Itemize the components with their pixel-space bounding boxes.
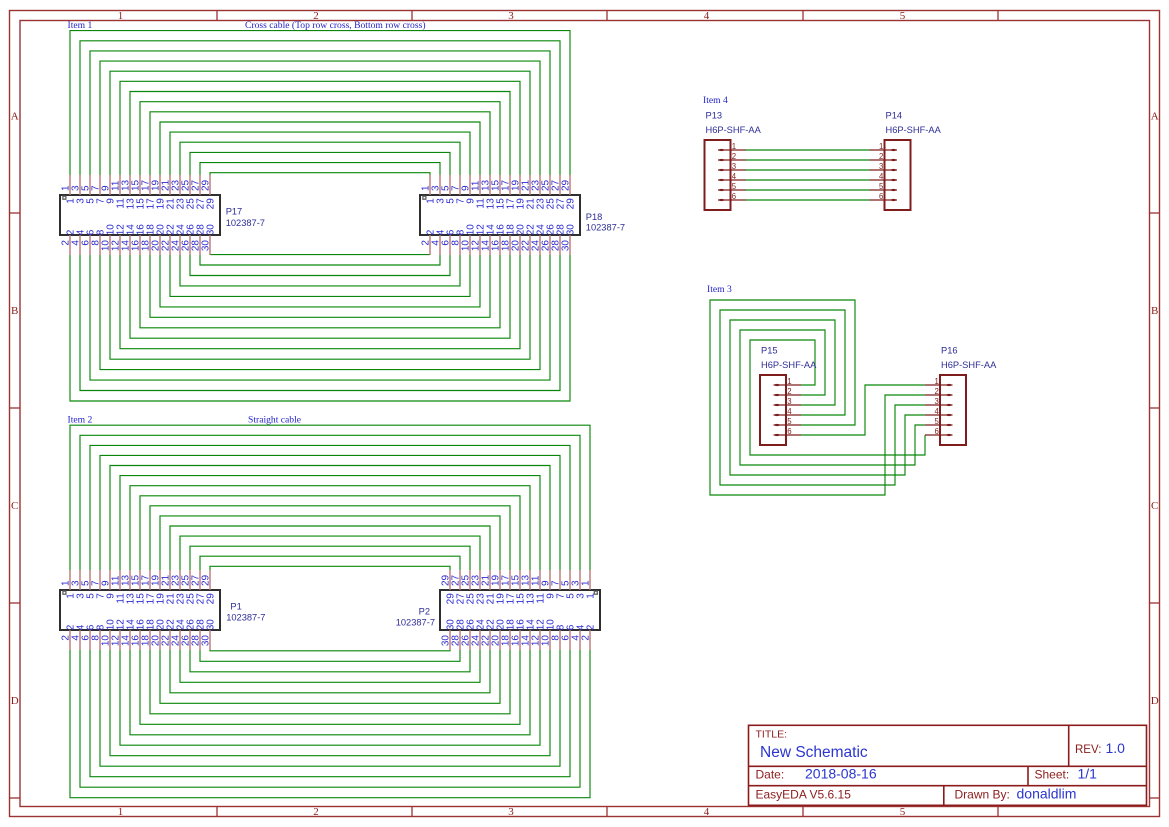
svg-text:Date:: Date: [756, 768, 785, 782]
wire P15.4 to P16.3 [720, 310, 925, 485]
connector P17 pin stubs [70, 175, 210, 255]
connector P1 pin numbers inside bottom [66, 619, 217, 631]
svg-text:5: 5 [732, 182, 737, 191]
wire P17.18 to P18.14 [150, 255, 490, 317]
wire P17.26 to P18.6 [190, 255, 450, 276]
svg-text:Item 2: Item 2 [68, 415, 93, 426]
svg-text:30: 30 [206, 224, 217, 236]
wire P17.5 to P18.25 [90, 51, 550, 175]
svg-text:REV:: REV: [1075, 744, 1101, 756]
connector P2 pin numbers inside top [446, 593, 597, 605]
svg-text:2: 2 [581, 635, 592, 641]
svg-text:3: 3 [934, 397, 938, 406]
connector P17 pin numbers outside bottom [61, 240, 212, 252]
svg-text:30: 30 [201, 240, 212, 252]
wire P17.22 to P18.10 [170, 255, 470, 296]
frame column labels bottom [118, 806, 906, 818]
wire P17.6 to P18.26 [90, 255, 550, 380]
svg-text:29: 29 [201, 574, 212, 586]
wire P1.27 to P2.27 [200, 556, 460, 570]
wire P1.20 to P2.20 [160, 650, 500, 703]
svg-text:6: 6 [732, 192, 736, 201]
svg-text:TITLE:: TITLE: [756, 729, 788, 741]
svg-text:EasyEDA V5.6.15: EasyEDA V5.6.15 [756, 788, 852, 802]
connector P16 pins [925, 384, 953, 436]
connector P1 pin stubs [70, 570, 210, 650]
connector P16 body [940, 375, 966, 445]
wire P1.2 to P2.2 [70, 650, 590, 798]
svg-text:4: 4 [787, 407, 792, 416]
title block row dividers [749, 725, 1147, 805]
svg-text:C: C [11, 500, 18, 512]
svg-text:Straight cable: Straight cable [248, 415, 301, 426]
connector P17 pin numbers inside bottom [66, 224, 217, 236]
svg-text:5: 5 [787, 417, 792, 426]
connector P17 body [60, 195, 220, 235]
connector P2 pin numbers inside bottom [446, 619, 597, 631]
frame row labels left [11, 111, 19, 708]
svg-text:29: 29 [566, 198, 577, 210]
svg-text:3: 3 [732, 162, 736, 171]
svg-text:H6P-SHF-AA: H6P-SHF-AA [761, 360, 817, 370]
connector P18 pin-1 notch [423, 196, 426, 199]
wire P17.25 to P18.5 [190, 152, 450, 175]
connector P13 pin numbers [732, 142, 737, 201]
svg-text:5: 5 [934, 417, 939, 426]
wire P17.28 to P18.4 [200, 255, 440, 265]
wire P17.12 to P18.20 [120, 255, 520, 349]
connector P15 pins [774, 384, 802, 436]
wire P17.2 to P18.30 [70, 255, 570, 401]
svg-text:2: 2 [313, 806, 319, 818]
wire P13.4 to P14.4 [745, 179, 870, 181]
svg-text:P18: P18 [586, 212, 603, 222]
svg-text:donaldlim: donaldlim [1017, 786, 1077, 802]
svg-text:3: 3 [508, 806, 514, 818]
connector P14 pin numbers [879, 142, 884, 201]
wire P1.4 to P2.4 [80, 650, 580, 787]
svg-text:1: 1 [787, 377, 791, 386]
wire P1.7 to P2.7 [100, 455, 560, 570]
wire P17.24 to P18.8 [180, 255, 460, 286]
svg-text:New Schematic: New Schematic [760, 744, 868, 761]
wire P1.28 to P2.28 [200, 650, 460, 661]
wire P1.29 to P2.29 [210, 566, 450, 570]
connector P14 pins [870, 149, 898, 201]
svg-text:Cross cable (Top row cross, Bo: Cross cable (Top row cross, Bottom row c… [245, 20, 426, 31]
svg-text:H6P-SHF-AA: H6P-SHF-AA [941, 360, 997, 370]
wire P1.16 to P2.16 [140, 650, 520, 724]
svg-text:4: 4 [704, 10, 710, 22]
svg-text:102387-7: 102387-7 [226, 218, 265, 228]
svg-text:4: 4 [732, 172, 737, 181]
connector P14 body [885, 140, 911, 210]
wire P13.2 to P14.2 [745, 159, 870, 161]
connector P13 body [705, 140, 731, 210]
wire P13.3 to P14.3 [745, 169, 870, 171]
wire P17.1 to P18.29 [70, 31, 570, 175]
wire P1.3 to P2.3 [80, 435, 580, 570]
frame row labels right [1151, 111, 1159, 708]
svg-text:D: D [11, 695, 19, 707]
wire P17.14 to P18.18 [130, 255, 510, 338]
wire P1.15 to P2.15 [140, 496, 520, 570]
wire P1.19 to P2.19 [160, 516, 500, 570]
wire P1.9 to P2.9 [110, 466, 550, 571]
wire P1.14 to P2.14 [130, 650, 530, 735]
svg-text:5: 5 [879, 182, 884, 191]
wire P17.9 to P18.21 [110, 71, 530, 175]
wire P1.22 to P2.22 [170, 650, 490, 693]
wire P17.3 to P18.27 [80, 41, 560, 175]
wire P17.10 to P18.22 [110, 255, 530, 359]
connector P16 pin numbers [934, 377, 939, 436]
svg-text:Item 3: Item 3 [707, 284, 732, 295]
svg-text:2: 2 [586, 624, 597, 630]
wire P1.26 to P2.26 [190, 650, 470, 672]
svg-text:2: 2 [787, 387, 791, 396]
svg-text:B: B [11, 305, 18, 317]
svg-text:1: 1 [586, 593, 597, 599]
connector P2 pin stubs [450, 570, 590, 650]
wire P1.18 to P2.18 [150, 650, 510, 714]
wire P17.30 to P18.2 [210, 254, 430, 256]
svg-text:P13: P13 [706, 111, 723, 121]
connector P1 body [60, 590, 220, 630]
connector P18 pin numbers outside bottom [421, 240, 572, 252]
wire P1.17 to P2.17 [150, 506, 510, 570]
svg-text:Item 4: Item 4 [703, 95, 728, 106]
svg-text:1: 1 [581, 580, 592, 586]
svg-text:102387-7: 102387-7 [226, 613, 265, 623]
connector P2 pin numbers outside bottom [441, 635, 592, 647]
svg-text:2: 2 [934, 387, 938, 396]
svg-text:30: 30 [201, 635, 212, 647]
wire P17.19 to P18.11 [160, 122, 480, 175]
wire P17.13 to P18.17 [130, 92, 510, 176]
svg-text:102387-7: 102387-7 [586, 223, 625, 233]
connector P1 pin numbers inside top [66, 593, 217, 605]
svg-text:29: 29 [561, 179, 572, 191]
connector P18 pin numbers outside top [421, 179, 572, 191]
connector P13 pins [718, 149, 746, 201]
svg-text:1: 1 [118, 806, 124, 818]
svg-text:3: 3 [787, 397, 791, 406]
wire P15.2 to P16.5 [740, 330, 925, 465]
svg-text:6: 6 [787, 427, 791, 436]
wire P17.8 to P18.24 [100, 255, 540, 370]
svg-text:A: A [1151, 111, 1159, 123]
wire P17.11 to P18.19 [120, 81, 520, 175]
wire P15.6 to P16.1 [801, 385, 925, 435]
wire P17.17 to P18.13 [150, 112, 490, 175]
wire P15.5 to P16.2 [710, 300, 925, 495]
svg-text:C: C [1151, 500, 1158, 512]
svg-text:P1: P1 [230, 602, 241, 612]
wire P13.6 to P14.6 [745, 199, 870, 201]
svg-text:H6P-SHF-AA: H6P-SHF-AA [886, 125, 942, 135]
wire P17.15 to P18.15 [140, 102, 500, 175]
svg-text:Drawn By:: Drawn By: [955, 788, 1010, 802]
svg-text:29: 29 [206, 198, 217, 210]
svg-text:102387-7: 102387-7 [396, 618, 435, 628]
connector P18 body [420, 195, 580, 235]
wire P1.25 to P2.25 [190, 546, 470, 570]
svg-text:Sheet:: Sheet: [1035, 768, 1070, 782]
connector P15 body [760, 375, 786, 445]
svg-text:2: 2 [732, 152, 736, 161]
svg-text:30: 30 [561, 240, 572, 252]
wire P1.30 to P2.30 [210, 649, 450, 652]
title block outline [749, 725, 1147, 805]
wire P1.24 to P2.24 [180, 650, 480, 682]
svg-text:3: 3 [879, 162, 883, 171]
svg-text:5: 5 [900, 806, 906, 818]
wire P13.1 to P14.1 [745, 149, 870, 151]
wire P17.27 to P18.3 [200, 163, 440, 175]
svg-text:5: 5 [900, 10, 906, 22]
wire P1.11 to P2.11 [120, 476, 540, 570]
svg-text:Item 1: Item 1 [68, 20, 93, 31]
wire P1.1 to P2.1 [70, 425, 590, 570]
svg-text:30: 30 [566, 224, 577, 236]
svg-text:2: 2 [879, 152, 883, 161]
svg-text:D: D [1151, 695, 1159, 707]
svg-text:P14: P14 [886, 111, 903, 121]
wire P17.21 to P18.9 [170, 132, 470, 175]
wire P17.16 to P18.16 [140, 255, 500, 328]
svg-text:29: 29 [206, 593, 217, 605]
connector P2 pin numbers outside top [441, 574, 592, 586]
connector P1 pin numbers outside top [61, 574, 212, 586]
wire P17.29 to P18.1 [210, 173, 430, 175]
connector P18 pin numbers inside top [426, 198, 577, 210]
connector P18 pin numbers inside bottom [426, 224, 577, 236]
svg-text:4: 4 [704, 806, 710, 818]
wire P1.8 to P2.8 [100, 650, 560, 766]
connector P1 pin-1 notch [63, 591, 66, 594]
wire P17.23 to P18.7 [180, 142, 460, 175]
wire P1.10 to P2.10 [110, 650, 550, 756]
wire P1.5 to P2.5 [90, 445, 570, 570]
connector P2 pin-1 notch [594, 591, 597, 594]
svg-text:1/1: 1/1 [1078, 766, 1098, 782]
svg-text:30: 30 [206, 619, 217, 631]
svg-text:H6P-SHF-AA: H6P-SHF-AA [706, 125, 762, 135]
svg-text:P15: P15 [761, 346, 778, 356]
svg-text:2018-08-16: 2018-08-16 [805, 766, 877, 782]
connector P15 pin numbers [787, 377, 792, 436]
svg-text:P17: P17 [226, 207, 243, 217]
connector P17 pin numbers inside top [66, 198, 217, 210]
wire P1.6 to P2.6 [90, 650, 570, 777]
svg-text:A: A [11, 111, 19, 123]
wire P17.20 to P18.12 [160, 255, 480, 307]
svg-text:1: 1 [118, 10, 124, 22]
svg-text:1: 1 [879, 142, 883, 151]
svg-text:29: 29 [201, 179, 212, 191]
svg-text:P16: P16 [941, 346, 958, 356]
wire P1.12 to P2.12 [120, 650, 540, 745]
svg-text:1: 1 [934, 377, 938, 386]
wire P1.21 to P2.21 [170, 526, 490, 570]
wire P1.23 to P2.23 [180, 536, 480, 570]
wire P15.3 to P16.4 [730, 320, 925, 475]
wire P17.4 to P18.28 [80, 255, 560, 391]
svg-text:6: 6 [934, 427, 938, 436]
svg-text:6: 6 [879, 192, 883, 201]
svg-text:4: 4 [934, 407, 939, 416]
svg-text:1.0: 1.0 [1106, 740, 1126, 756]
frame column labels top [118, 10, 906, 22]
wire P1.13 to P2.13 [130, 486, 530, 570]
svg-text:1: 1 [732, 142, 736, 151]
wire P13.5 to P14.5 [745, 189, 870, 191]
connector P17 pin-1 notch [63, 196, 66, 199]
connector P17 pin numbers outside top [61, 179, 212, 191]
connector P2 body [440, 590, 600, 630]
svg-text:4: 4 [879, 172, 884, 181]
svg-text:B: B [1151, 305, 1158, 317]
svg-text:P2: P2 [419, 607, 430, 617]
connector P1 pin numbers outside bottom [61, 635, 212, 647]
wire P15.1 to P16.6 [750, 340, 925, 455]
connector P18 pin stubs [430, 175, 570, 255]
svg-text:3: 3 [508, 10, 514, 22]
wire P17.7 to P18.23 [100, 61, 540, 175]
